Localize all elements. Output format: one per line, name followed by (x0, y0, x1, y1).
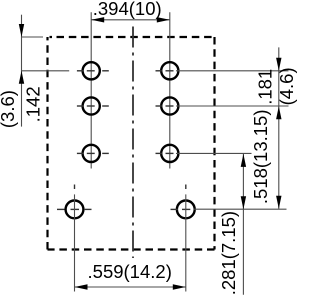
center marks bottom right hole (171, 185, 191, 210)
center marks row1 left (77, 70, 109, 72)
hole pad bottom right (177, 201, 195, 219)
dimension .559(14.2) dim line (75, 286, 186, 288)
arrowhead pointing up at row3 (241, 154, 246, 167)
svg-text:.394(10): .394(10) (93, 0, 162, 19)
svg-text:.559(14.2): .559(14.2) (88, 261, 172, 282)
dimension .181(4.6)/.518(13.15) shared vertical dim line (278, 47, 280, 208)
hole pad row3 left (83, 145, 100, 162)
hole pad row1 left (83, 62, 100, 79)
center marks row3 right (156, 152, 174, 154)
dimension .394(10) arrowheads (91, 17, 104, 22)
svg-text:(3.6): (3.6) (0, 90, 18, 128)
hole pad bottom left (66, 201, 84, 219)
center marks row2 right (156, 105, 174, 107)
right side extension lines row1 / row2 / row3 / bottom (176, 71, 289, 209)
arrowhead pointing up at row2 (shared .181/.518) (276, 106, 281, 119)
centerline (vertical dash-dot) (132, 27, 134, 259)
center marks row2 left (77, 105, 109, 107)
arrowhead pointing down at row1 (for .181) (276, 58, 281, 71)
svg-text:(4.6): (4.6) (276, 67, 297, 105)
dimension .281(7.15) vertical dim line (242, 153, 244, 294)
arrowhead pointing down at bottom row (for .518) (276, 196, 281, 209)
dimension .559(14.2) arrowheads (75, 284, 88, 289)
component outline (dashed body rectangle) (48, 37, 215, 250)
hole pad row2 right (161, 97, 178, 114)
extension line right column (through holes, from top dimension) (169, 12, 171, 168)
svg-text:.281(7.15): .281(7.15) (218, 211, 239, 295)
svg-text:.181: .181 (255, 69, 276, 105)
arrowhead pointing down at bottom row (241, 196, 246, 209)
dimension .394(10) top: dim line (91, 19, 170, 21)
center marks row3 left (77, 152, 109, 154)
extension line left column (through holes, from top dimension) (90, 12, 92, 168)
dimension .142(3.6) left: dim line and extension segments (22, 15, 70, 127)
bottom dimension .559(14.2) extension lines (75, 194, 186, 291)
hole pad row1 right (161, 62, 178, 79)
svg-text:.142: .142 (23, 86, 44, 122)
svg-text:.518(13.15): .518(13.15) (250, 109, 271, 204)
hole pad row3 right (161, 145, 178, 162)
hole pad row2 left (83, 97, 100, 114)
center marks bottom left hole (57, 185, 92, 210)
center marks row1 right (156, 70, 174, 72)
dimension .142(3.6) arrowheads (outside, pointing in) (19, 24, 24, 37)
